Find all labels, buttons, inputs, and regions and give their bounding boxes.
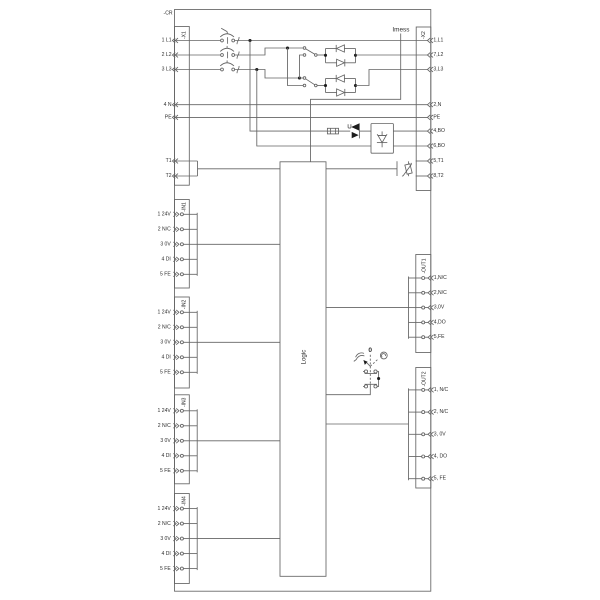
terminal block -X1: [175, 27, 190, 186]
junction L2 feed: [286, 46, 289, 49]
svg-text:3 0V: 3 0V: [160, 242, 171, 248]
svg-text:4 DI: 4 DI: [161, 551, 170, 557]
terminal -X2:1,L1: [427, 38, 430, 43]
svg-text:2 N/C: 2 N/C: [158, 521, 171, 527]
svg-text:0: 0: [368, 347, 372, 354]
switch S1 pole 2: [364, 385, 367, 388]
pin -OUT1:4,DO: [409, 321, 422, 323]
svg-text:-CR: -CR: [164, 11, 173, 17]
svg-text:-OUT2: -OUT2: [421, 371, 427, 386]
pin -OUT2:3, 0V: [409, 433, 422, 435]
junction L1/BO: [248, 39, 251, 42]
junction V2 right: [354, 84, 357, 87]
svg-text:4 DI: 4 DI: [161, 257, 170, 263]
wire -IN3 to Logic: [197, 440, 280, 442]
svg-text:3 L3: 3 L3: [162, 67, 172, 73]
svg-text:5 FE: 5 FE: [160, 370, 171, 376]
manual actuator (hand): [356, 353, 364, 357]
terminal -X2:3,L3: [427, 67, 430, 72]
svg-text:-IN2: -IN2: [181, 300, 187, 310]
svg-text:5, FE: 5, FE: [434, 476, 447, 482]
node bar -IN2: [196, 311, 198, 374]
svg-text:3 0V: 3 0V: [160, 536, 171, 542]
wire L1 to junction and terminal 1,L1: [235, 40, 428, 42]
svg-text:1 24V: 1 24V: [157, 506, 171, 512]
circuit breaker pole Q1.3: [221, 68, 224, 71]
svg-text:7,L2: 7,L2: [433, 52, 443, 58]
wire L1 to fuse F1: [250, 41, 327, 132]
wire L3 to 6,BO: [257, 70, 371, 147]
connector -IN3: [175, 395, 190, 484]
wire -IN1 to Logic: [197, 243, 280, 245]
terminal -X2:7,L2: [427, 53, 430, 58]
connector -OUT1: [416, 255, 431, 353]
svg-text:2, N/C: 2, N/C: [434, 409, 449, 415]
wire Logic to -OUT2: [326, 423, 409, 425]
svg-text:1 24V: 1 24V: [157, 212, 171, 218]
svg-text:5,T1: 5,T1: [433, 158, 443, 164]
diode V1.2: [344, 59, 346, 66]
svg-text:1 24V: 1 24V: [157, 408, 171, 414]
svg-text:4,DO: 4,DO: [434, 319, 446, 325]
svg-text:2 N/C: 2 N/C: [158, 423, 171, 429]
svg-text:2 L2: 2 L2: [162, 52, 172, 58]
svg-text:4 N: 4 N: [164, 102, 172, 108]
svg-text:4 DI: 4 DI: [161, 453, 170, 459]
svg-text:4 DI: 4 DI: [161, 355, 170, 361]
actuator linkage (dashed): [367, 363, 371, 367]
svg-text:-X1: -X1: [181, 31, 187, 39]
TVS diode Z1 (bidirectional): [348, 124, 351, 128]
diode V1.1: [335, 45, 337, 52]
svg-text:-IN3: -IN3: [181, 397, 187, 407]
svg-text:1 L1: 1 L1: [162, 38, 172, 44]
pin -OUT1:3,0V: [409, 307, 422, 309]
node bar -OUT1: [408, 277, 410, 339]
terminal -X2:8,T2: [427, 174, 430, 179]
wire crossover L3 to S2a lower contact: [300, 55, 304, 78]
terminal block -X2: [416, 27, 431, 191]
wire N row: [175, 104, 428, 106]
wire fuse to suppressor: [339, 130, 351, 132]
svg-text:3, 0V: 3, 0V: [434, 431, 446, 437]
wire S2b to diode pair V2: [317, 85, 325, 87]
terminal -X2:4,BO: [427, 129, 430, 134]
wire PE row: [175, 116, 428, 118]
wire to terminal 6,BO: [393, 145, 427, 147]
junction V1 left: [324, 54, 327, 57]
wire L3 left lead: [175, 69, 221, 71]
pin -OUT2:4, DO: [409, 456, 422, 458]
suppressor module U2: [371, 124, 393, 154]
fuse F1: [327, 130, 338, 132]
svg-text:1 24V: 1 24V: [157, 310, 171, 316]
svg-text:Logic: Logic: [300, 350, 307, 365]
wire Logic to S1: [326, 384, 370, 394]
pin -OUT1:5,FE: [409, 336, 422, 338]
thermistor RT1: [408, 161, 410, 164]
wire L3 to changeover switch S2b: [235, 70, 299, 79]
junction V2 left: [324, 84, 327, 87]
wire Imess tap into Logic: [311, 34, 401, 162]
wire T bar to Logic: [198, 168, 281, 170]
svg-text:5 FE: 5 FE: [160, 468, 171, 474]
svg-text:2 N/C: 2 N/C: [158, 325, 171, 331]
wire T2 right: [416, 175, 428, 177]
wire L2 to changeover switch S2a: [235, 48, 304, 55]
wire to terminal 4,BO: [393, 130, 427, 132]
svg-text:5 FE: 5 FE: [160, 566, 171, 572]
wire Logic to T bar right: [326, 168, 397, 170]
svg-text:2,N: 2,N: [433, 102, 441, 108]
svg-text:8,T2: 8,T2: [433, 173, 443, 179]
reset symbol (return arrow): [380, 352, 387, 359]
svg-text:3 0V: 3 0V: [160, 438, 171, 444]
wire -IN2 to Logic: [197, 341, 280, 343]
svg-text:5 FE: 5 FE: [160, 272, 171, 278]
device outline -CR: [175, 10, 431, 592]
changeover switch S2a: [303, 47, 306, 50]
junction V1 right: [354, 54, 357, 57]
wire T1 right: [416, 160, 428, 162]
node bar T right: [396, 161, 398, 176]
wire -IN4 to Logic: [197, 538, 280, 540]
connector -IN2: [175, 297, 190, 388]
svg-text:2 N/C: 2 N/C: [158, 227, 171, 233]
svg-text:3,0V: 3,0V: [434, 305, 445, 311]
node bar -IN4: [196, 507, 198, 570]
svg-text:-IN1: -IN1: [181, 202, 187, 212]
svg-text:1,N/C: 1,N/C: [434, 275, 447, 281]
wire V1 to terminal 7,L2: [356, 54, 428, 56]
svg-text:4, DO: 4, DO: [434, 454, 447, 460]
terminal -X2:2,N: [427, 102, 430, 107]
svg-text:1,L1: 1,L1: [433, 38, 443, 44]
node bar -IN1: [196, 213, 198, 276]
wire T1 left: [175, 160, 198, 162]
pin -OUT2:2, N/C: [409, 411, 422, 413]
svg-text:T1: T1: [166, 158, 172, 164]
svg-text:5,FE: 5,FE: [434, 334, 445, 340]
switch S1 pole 1: [364, 370, 367, 373]
wire junction to S2b upper contact: [300, 77, 304, 79]
node bar -IN3: [196, 409, 198, 472]
circuit breaker pole Q1.2: [221, 54, 224, 57]
wire S1 pole link: [377, 372, 379, 387]
wire L1 left lead: [175, 40, 221, 42]
svg-text:-X2: -X2: [421, 31, 427, 39]
logic block U1: [280, 162, 326, 577]
svg-text:1, N/C: 1, N/C: [434, 387, 449, 393]
node bar -OUT2: [408, 388, 410, 480]
wire V2 to terminal 3,L3: [356, 70, 428, 86]
svg-text:4,BO: 4,BO: [433, 128, 445, 134]
wire S2a to diode pair V1: [317, 54, 325, 56]
node bar T left: [197, 161, 199, 176]
junction S1 link: [377, 377, 380, 380]
wire T2 left: [175, 175, 198, 177]
terminal -X2:PE: [427, 115, 430, 120]
pin -OUT1:2,N/C: [409, 292, 422, 294]
terminal -X2:6,BO: [427, 144, 430, 149]
connector -IN1: [175, 200, 190, 289]
svg-text:2,N/C: 2,N/C: [434, 290, 447, 296]
pin -OUT1:1,N/C: [409, 277, 422, 279]
junction L3 feed: [298, 76, 301, 79]
connector -OUT2: [416, 368, 431, 489]
wire Logic to -OUT1: [326, 307, 409, 309]
changeover switch S2b: [303, 77, 306, 80]
circuit breaker pole Q1.1: [221, 39, 224, 42]
svg-text:PE: PE: [165, 115, 172, 121]
svg-text:6,BO: 6,BO: [433, 143, 445, 149]
diode V2.2: [344, 89, 346, 96]
diode pair V1 (anti-parallel): [325, 49, 327, 63]
junction L3/BO: [255, 68, 258, 71]
wire L2 left lead: [175, 54, 221, 56]
terminal -X2:5,T1: [427, 159, 430, 164]
connector -IN4: [175, 494, 190, 584]
pin -OUT2:1, N/C: [409, 389, 422, 391]
svg-text:-IN4: -IN4: [181, 496, 187, 506]
diode V2.1: [335, 75, 337, 82]
actuator arrow: [363, 360, 367, 365]
svg-text:3 0V: 3 0V: [160, 340, 171, 346]
svg-text:T2: T2: [166, 173, 172, 179]
svg-text:Imess: Imess: [392, 26, 409, 33]
diode pair V2 (anti-parallel): [325, 79, 327, 93]
pin -OUT2:5, FE: [409, 478, 422, 480]
svg-text:-OUT1: -OUT1: [421, 258, 427, 273]
wire crossover L2 to S2b lower contact: [288, 48, 304, 86]
svg-text:3,L3: 3,L3: [433, 67, 443, 73]
svg-text:PE: PE: [433, 115, 440, 121]
